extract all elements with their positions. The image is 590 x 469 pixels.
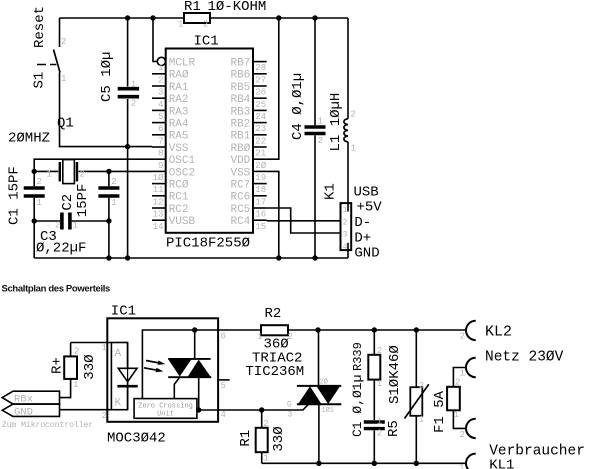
optocoupler U2 IC1 MOC3042 outer box	[102, 304, 226, 447]
svg-text:1: 1	[111, 198, 116, 208]
title Schaltplan des Powerteils	[2, 284, 111, 295]
svg-text:1: 1	[257, 332, 262, 342]
svg-text:Zum Mikrocontroller: Zum Mikrocontroller	[2, 420, 93, 430]
wire VSS pin 19	[267, 171, 279, 258]
svg-text:RC6: RC6	[230, 192, 250, 204]
svg-text:1: 1	[460, 369, 465, 379]
svg-text:14: 14	[153, 222, 164, 232]
capacitor C4 0,01&#181;	[290, 18, 326, 258]
crystal Q1 20MHZ	[8, 116, 152, 184]
node top rail junction C5	[125, 15, 130, 20]
resistor R+ 330	[50, 343, 99, 398]
capacitor C1 0,01&#181; power	[350, 375, 385, 464]
svg-text:RA4: RA4	[169, 119, 189, 131]
varistor R5 S10K460	[386, 330, 429, 463]
svg-text:33Ø: 33Ø	[271, 426, 287, 451]
svg-text:RB3: RB3	[230, 106, 250, 118]
svg-text:15PF: 15PF	[75, 184, 91, 218]
svg-text:19: 19	[255, 173, 266, 183]
svg-text:MCLR: MCLR	[169, 58, 196, 70]
svg-text:KL1: KL1	[489, 458, 514, 469]
svg-text:1: 1	[459, 463, 464, 469]
node bottom rail junction C4	[312, 255, 317, 260]
svg-text:2: 2	[455, 378, 460, 388]
svg-text:3: 3	[158, 88, 163, 98]
capacitor C1 15PF	[7, 166, 45, 225]
svg-text:8: 8	[158, 149, 163, 159]
svg-text:Unit: Unit	[157, 411, 174, 419]
svg-text:RB7: RB7	[230, 58, 250, 70]
node TRIAC2 TIC236M labels	[245, 351, 304, 381]
svg-text:RC7: RC7	[230, 180, 250, 192]
node C3 left junction	[32, 218, 37, 223]
svg-text:22: 22	[255, 136, 266, 146]
svg-text:24: 24	[255, 112, 266, 122]
svg-text:1: 1	[73, 221, 78, 231]
svg-text:S1: S1	[32, 72, 48, 89]
node top rail junction VDD	[276, 15, 281, 20]
svg-text:4: 4	[343, 243, 348, 252]
svg-text:2: 2	[74, 347, 79, 357]
svg-text:6: 6	[158, 124, 163, 134]
svg-text:2: 2	[37, 177, 42, 187]
svg-text:K: K	[115, 398, 122, 410]
node varistor junction top	[414, 327, 419, 332]
svg-text:+5V: +5V	[357, 200, 383, 216]
svg-text:RB5: RB5	[230, 82, 250, 94]
svg-text:1: 1	[131, 80, 136, 90]
svg-text:28: 28	[255, 63, 266, 73]
node GND net arrow	[2, 404, 59, 418]
node bottom rail junction VSS	[276, 255, 281, 260]
connector KL1 pin 1	[459, 454, 476, 469]
svg-text:RA1: RA1	[169, 82, 189, 94]
svg-text:9: 9	[158, 161, 163, 171]
svg-text:R5: R5	[386, 420, 402, 437]
svg-text:R1: R1	[184, 0, 201, 15]
svg-text:2: 2	[460, 430, 465, 440]
svg-text:2: 2	[203, 20, 208, 30]
zero crossing unit box	[134, 399, 197, 419]
svg-text:2: 2	[102, 411, 107, 421]
svg-text:Q1: Q1	[57, 116, 74, 132]
wire triac top net	[288, 329, 466, 331]
svg-text:1: 1	[61, 74, 66, 84]
svg-text:1: 1	[343, 206, 348, 215]
svg-text:15: 15	[255, 222, 266, 232]
svg-text:MOC3Ø42: MOC3Ø42	[107, 431, 166, 447]
svg-text:1: 1	[102, 343, 107, 353]
wire GND bottom rail	[34, 257, 348, 259]
svg-text:6: 6	[221, 332, 226, 342]
node bottom rail junction C5	[125, 255, 130, 260]
fuse F1 5A	[432, 368, 466, 434]
wire inner compartment / pin 6	[142, 330, 261, 399]
wire D+	[267, 208, 341, 233]
svg-text:IC1: IC1	[111, 304, 136, 320]
svg-text:1: 1	[318, 117, 323, 127]
wire GND to optocoupler pin 2	[60, 409, 112, 411]
switch S1 Reset	[32, 6, 153, 147]
svg-text:17: 17	[255, 197, 266, 207]
node rail junction MT1	[316, 461, 321, 466]
wire K1 pin 4 GND	[347, 243, 349, 258]
svg-text:RC5: RC5	[230, 204, 250, 216]
op-amp U1 IC1 PIC18F2550	[152, 34, 267, 252]
svg-text:16: 16	[255, 210, 266, 220]
svg-text:2: 2	[263, 419, 268, 429]
svg-text:4: 4	[221, 410, 226, 420]
connector KL2 pin 1	[460, 358, 476, 379]
svg-text:RA5: RA5	[169, 131, 189, 143]
svg-text:27: 27	[255, 75, 266, 85]
svg-text:2: 2	[288, 332, 293, 342]
svg-text:7: 7	[158, 136, 163, 146]
resistor R1 330 power	[238, 410, 287, 464]
svg-text:RBØ: RBØ	[230, 143, 250, 155]
svg-text:2: 2	[460, 332, 465, 342]
node triac MT2 junction	[315, 327, 320, 332]
svg-text:D-: D-	[354, 215, 371, 231]
svg-text:R1: R1	[238, 430, 254, 447]
svg-text:2: 2	[131, 99, 136, 109]
node top rail junction MCLR	[150, 15, 155, 20]
svg-text:RC1: RC1	[169, 192, 189, 204]
svg-text:Netz 23ØV: Netz 23ØV	[485, 349, 564, 365]
svg-text:Reset: Reset	[32, 6, 48, 48]
svg-text:2ØMHZ: 2ØMHZ	[8, 131, 50, 147]
svg-text:1Ø: 1Ø	[153, 173, 164, 183]
svg-text:23: 23	[255, 124, 266, 134]
svg-text:K1: K1	[323, 183, 339, 200]
svg-text:VUSB: VUSB	[169, 216, 196, 228]
svg-text:2: 2	[419, 381, 424, 391]
node bottom rail junction C2	[106, 255, 111, 260]
wire VDD	[267, 18, 279, 159]
svg-text:1: 1	[454, 410, 459, 420]
svg-text:18: 18	[255, 185, 266, 195]
node Zum Mikrocontroller label	[2, 420, 93, 430]
svg-text:33Ø: 33Ø	[82, 354, 98, 379]
svg-text:RB6: RB6	[230, 70, 250, 82]
svg-text:A: A	[115, 348, 122, 360]
svg-text:2: 2	[377, 346, 382, 356]
svg-text:VSS: VSS	[230, 167, 250, 179]
svg-text:5: 5	[158, 112, 163, 122]
connector K1 USB	[323, 183, 352, 252]
node snubber junction top	[372, 327, 377, 332]
svg-text:RB1: RB1	[230, 131, 250, 143]
svg-text:RA3: RA3	[169, 106, 189, 118]
node Netz 230V label	[485, 349, 564, 365]
svg-text:2: 2	[351, 110, 356, 120]
node Verbraucher label	[489, 444, 585, 460]
svg-text:2Ø: 2Ø	[320, 378, 328, 387]
node RBx net arrow	[2, 391, 59, 405]
svg-text:VDD: VDD	[230, 155, 250, 167]
triac Q2 TIC236M	[287, 330, 341, 463]
connector KL2 pin 2	[460, 321, 476, 342]
node pin4 inner junction	[196, 407, 201, 412]
resistor R1 10-KOHM	[178, 0, 266, 30]
svg-text:C1 Ø,Ø1µ: C1 Ø,Ø1µ	[350, 375, 365, 437]
svg-text:VSS: VSS	[169, 143, 189, 155]
svg-text:1: 1	[178, 20, 183, 30]
svg-text:1: 1	[377, 417, 382, 427]
svg-text:2: 2	[111, 177, 116, 187]
wire top rail	[60, 17, 349, 19]
capacitor C2 15PF	[60, 171, 120, 258]
svg-text:1: 1	[351, 144, 356, 154]
svg-text:GND: GND	[14, 406, 33, 418]
node USB labels	[354, 185, 383, 262]
svg-text:1Ø-KOHM: 1Ø-KOHM	[208, 0, 267, 15]
svg-text:2: 2	[80, 170, 85, 180]
svg-text:4: 4	[158, 100, 163, 110]
svg-text:RA2: RA2	[169, 94, 189, 106]
svg-text:RC4: RC4	[230, 216, 250, 228]
svg-text:F1 5A: F1 5A	[432, 390, 448, 433]
svg-text:IC1: IC1	[194, 34, 219, 50]
wire MCLR	[153, 18, 157, 61]
photo-triac of MOC3042	[168, 330, 211, 410]
svg-text:GND: GND	[354, 246, 379, 262]
svg-text:1: 1	[73, 380, 78, 390]
node KL1 label	[489, 458, 514, 469]
svg-text:PIC18F255Ø: PIC18F255Ø	[166, 236, 250, 252]
svg-text:26: 26	[255, 88, 266, 98]
node VSS wire junction C5	[125, 144, 130, 149]
node pin4 R1 junction	[259, 407, 264, 412]
svg-text:C4 Ø,Ø1µ: C4 Ø,Ø1µ	[290, 73, 306, 140]
svg-text:21: 21	[255, 149, 266, 159]
svg-text:1: 1	[263, 454, 268, 464]
pin 5 stub	[218, 379, 230, 381]
wire optocoupler pin 4	[197, 404, 309, 410]
inductor L1 10&#181;H	[328, 18, 356, 212]
wire power bottom rail	[262, 462, 466, 464]
svg-text:1: 1	[419, 415, 424, 425]
svg-text:2: 2	[343, 218, 348, 227]
svg-text:L1 1ØµH: L1 1ØµH	[328, 93, 344, 152]
svg-text:2: 2	[377, 429, 382, 439]
node KL2 label	[485, 323, 512, 340]
resistor R2 360	[257, 306, 293, 353]
svg-text:R2: R2	[265, 306, 282, 322]
svg-text:OSC2: OSC2	[169, 167, 195, 179]
svg-text:RB4: RB4	[230, 94, 250, 106]
svg-text:1: 1	[47, 170, 52, 180]
svg-text:RC2: RC2	[169, 204, 189, 216]
svg-text:RAØ: RAØ	[169, 70, 189, 82]
svg-text:3: 3	[343, 231, 348, 240]
svg-text:1Ø1: 1Ø1	[321, 406, 334, 415]
svg-text:11: 11	[153, 185, 164, 195]
svg-text:1: 1	[158, 63, 163, 73]
svg-text:RCØ: RCØ	[169, 180, 189, 192]
svg-text:OSC1: OSC1	[169, 155, 196, 167]
light arrows	[144, 361, 165, 373]
svg-text:D+: D+	[354, 230, 371, 246]
svg-text:2: 2	[158, 75, 163, 85]
svg-text:2: 2	[55, 221, 60, 231]
svg-text:C2: C2	[60, 194, 76, 211]
node top rail junction C4	[312, 15, 317, 20]
diode LED of MOC3042	[117, 343, 137, 410]
svg-text:3: 3	[288, 410, 293, 419]
svg-text:Ø,22µF: Ø,22µF	[36, 241, 86, 257]
svg-text:1: 1	[377, 379, 382, 389]
svg-text:KL2: KL2	[485, 323, 512, 340]
capacitor C5 10&#181;	[99, 18, 139, 258]
svg-text:C1 15PF: C1 15PF	[7, 166, 23, 225]
svg-text:2: 2	[318, 136, 323, 146]
svg-text:S1ØK46Ø: S1ØK46Ø	[387, 345, 403, 404]
svg-text:R339: R339	[351, 342, 365, 371]
node C3 right junction	[106, 218, 111, 223]
svg-text:RB2: RB2	[230, 119, 250, 131]
capacitor C3 0,22&#181;F	[34, 213, 109, 257]
wire OSC1	[34, 159, 152, 258]
svg-text:12: 12	[153, 197, 164, 207]
svg-text:Zero Crossing: Zero Crossing	[138, 403, 193, 411]
pin 1 inversion bubble	[157, 57, 165, 65]
resistor R3 39	[351, 330, 382, 420]
svg-text:Schaltplan des Powerteils: Schaltplan des Powerteils	[2, 284, 111, 295]
svg-text:25: 25	[255, 100, 266, 110]
node photo-triac MT2 junction	[192, 327, 197, 332]
svg-text:C5 1Øµ: C5 1Øµ	[99, 52, 115, 102]
svg-text:5: 5	[221, 381, 226, 391]
connector KL1 pin 2	[460, 419, 476, 440]
node OSC1 crystal junction	[32, 169, 37, 174]
svg-text:1: 1	[37, 198, 42, 208]
svg-text:2Ø: 2Ø	[255, 161, 266, 171]
svg-text:2: 2	[61, 37, 66, 47]
node rail junction R5	[414, 461, 419, 466]
node rail junction C1	[372, 461, 377, 466]
svg-text:13: 13	[153, 210, 164, 220]
svg-text:R+: R+	[50, 357, 66, 374]
wire optocoupler pin 1	[71, 342, 112, 344]
led compartment	[111, 343, 127, 410]
svg-text:G: G	[287, 401, 292, 410]
svg-text:TIC236M: TIC236M	[245, 364, 304, 380]
svg-text:USB: USB	[354, 185, 379, 201]
wire D-	[267, 220, 341, 222]
node OSC2 junction C2	[106, 169, 111, 174]
